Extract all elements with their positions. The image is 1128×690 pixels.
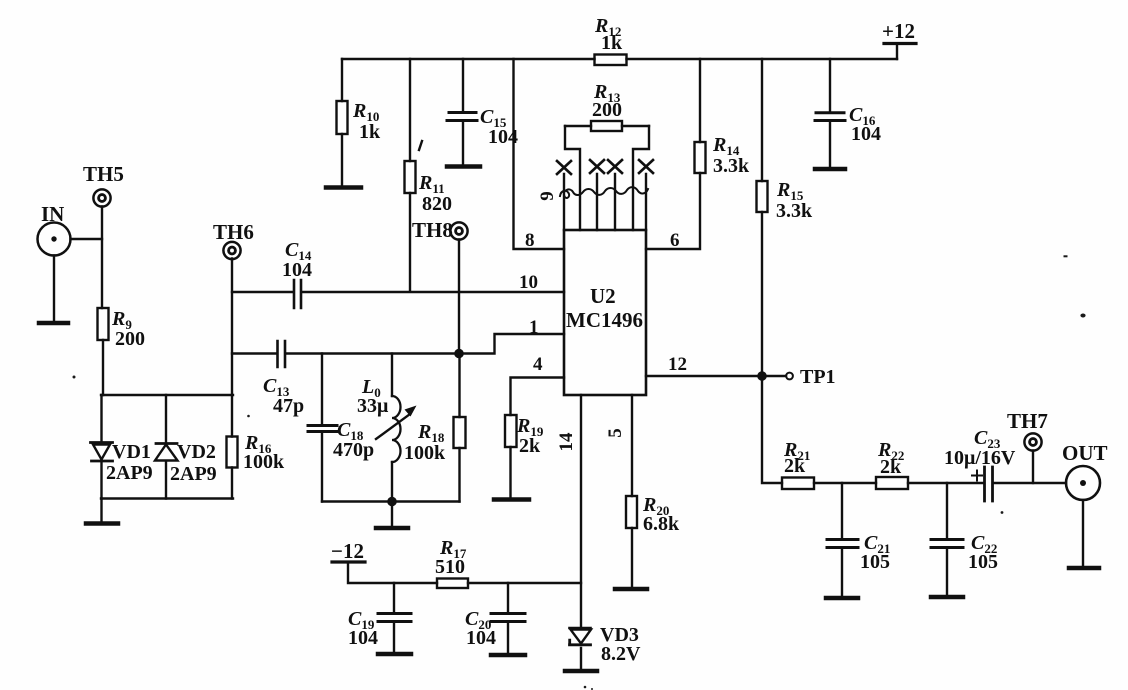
svg-text:47p: 47p: [273, 395, 304, 417]
svg-text:3.3k: 3.3k: [776, 200, 813, 222]
svg-text:10: 10: [519, 272, 538, 293]
svg-text:IN: IN: [41, 202, 64, 226]
svg-text:8: 8: [525, 230, 535, 251]
svg-text:2AP9: 2AP9: [170, 463, 217, 485]
svg-text:100k: 100k: [243, 451, 285, 473]
svg-text:100k: 100k: [404, 442, 446, 464]
svg-text:1k: 1k: [359, 121, 381, 143]
svg-text:2k: 2k: [784, 455, 806, 477]
svg-text:820: 820: [422, 193, 452, 215]
svg-text:2k: 2k: [880, 456, 902, 478]
svg-text:105: 105: [860, 551, 890, 573]
svg-text:9: 9: [537, 191, 558, 201]
svg-text:8.2V: 8.2V: [601, 643, 641, 665]
svg-text:VD1: VD1: [112, 441, 151, 463]
svg-text:VD2: VD2: [177, 441, 216, 463]
svg-text:104: 104: [348, 627, 378, 649]
svg-text:TP1: TP1: [800, 366, 836, 388]
svg-text:4: 4: [533, 354, 543, 375]
svg-text:2k: 2k: [519, 435, 541, 457]
svg-text:510: 510: [435, 556, 465, 578]
svg-text:1k: 1k: [601, 32, 623, 54]
svg-text:1: 1: [529, 317, 539, 338]
svg-text:−12: −12: [331, 539, 364, 563]
svg-text:14: 14: [556, 432, 577, 452]
svg-text:5: 5: [605, 428, 626, 438]
svg-text:3.3k: 3.3k: [713, 155, 750, 177]
svg-text:10μ/16V: 10μ/16V: [944, 447, 1016, 469]
svg-text:TH6: TH6: [213, 220, 254, 244]
svg-text:+12: +12: [882, 19, 915, 43]
svg-text:104: 104: [488, 126, 518, 148]
svg-text:OUT: OUT: [1062, 441, 1108, 465]
svg-text:104: 104: [851, 123, 881, 145]
svg-text:2AP9: 2AP9: [106, 462, 153, 484]
svg-text:6.8k: 6.8k: [643, 513, 680, 535]
svg-text:TH8: TH8: [412, 218, 453, 242]
svg-text:U2: U2: [590, 284, 616, 308]
svg-text:200: 200: [592, 99, 622, 121]
svg-text:TH7: TH7: [1007, 409, 1048, 433]
svg-text:104: 104: [466, 627, 496, 649]
svg-text:33μ: 33μ: [357, 395, 389, 417]
svg-text:12: 12: [668, 354, 687, 375]
svg-text:470p: 470p: [333, 439, 374, 461]
svg-text:104: 104: [282, 259, 312, 281]
svg-text:200: 200: [115, 328, 145, 350]
svg-text:MC1496: MC1496: [566, 308, 643, 332]
svg-text:TH5: TH5: [83, 162, 124, 186]
svg-text:105: 105: [968, 551, 998, 573]
svg-text:6: 6: [670, 230, 680, 251]
